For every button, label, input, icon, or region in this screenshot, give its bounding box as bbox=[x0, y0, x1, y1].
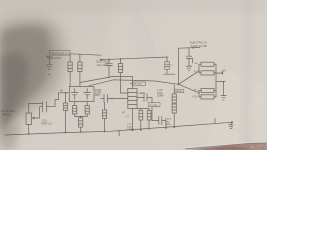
capacitor C13 bbox=[201, 71, 214, 75]
resistor R4 bbox=[73, 106, 77, 115]
resistor R3 bbox=[78, 62, 82, 72]
ground bus bbox=[5, 122, 232, 135]
capacitor C2 plates bbox=[42, 102, 44, 113]
capacitor C4 inside bbox=[71, 91, 78, 93]
paper edge shadow line bbox=[185, 143, 267, 149]
center fold soft bbox=[128, 0, 160, 90]
right fold shading bbox=[242, 0, 252, 150]
rail A bbox=[70, 54, 101, 55]
wire diagonal 2 bbox=[89, 80, 179, 86]
resistor R7 bbox=[120, 59, 122, 64]
raised corner light bottom right bbox=[205, 70, 267, 148]
ground G3 bbox=[221, 95, 226, 97]
wire pot bottom bbox=[28, 125, 30, 134]
wiper arrow bbox=[32, 117, 35, 120]
wire diagonal 1 bbox=[80, 76, 132, 88]
rail B bbox=[102, 57, 169, 60]
stub below bus bbox=[118, 130, 120, 132]
node fan-upper bbox=[198, 70, 199, 71]
wire pot top bbox=[29, 104, 43, 114]
node C6-wire bbox=[108, 77, 109, 78]
wire R4 R5 join bbox=[75, 114, 88, 117]
capacitor C7 bbox=[101, 98, 105, 100]
node R9-bus bbox=[140, 129, 142, 131]
wire op-amp out bbox=[220, 81, 225, 83]
node U1-bus bbox=[132, 130, 134, 132]
wire C3 to bus bbox=[65, 111, 67, 133]
module box X1 bbox=[69, 87, 94, 102]
node C9-bus bbox=[165, 127, 167, 129]
corner crease top-left bbox=[0, 0, 27, 16]
jumper label JP2 bbox=[149, 103, 161, 107]
wire ladder right rail bbox=[215, 64, 217, 97]
wire U1 bottom rail bbox=[137, 108, 149, 110]
wire JP2 down bbox=[151, 107, 153, 120]
capacitor C12 bbox=[201, 62, 214, 66]
electrolytic C3 bbox=[65, 93, 67, 103]
+5V arrow A bbox=[192, 58, 194, 63]
table surface bottom right bbox=[184, 143, 267, 150]
node pot-bus bbox=[28, 133, 30, 135]
capacitor C8 bbox=[137, 97, 144, 99]
wire to R11 bbox=[173, 85, 175, 94]
node rail-C6 bbox=[108, 59, 110, 61]
+5V arrow B bbox=[216, 72, 222, 74]
resistor R12 bbox=[172, 104, 176, 113]
node R12-bus bbox=[173, 126, 175, 128]
node join bbox=[80, 116, 82, 118]
ground G1 bbox=[48, 58, 50, 65]
node V+ bbox=[192, 47, 194, 49]
corner crease bbox=[231, 126, 252, 143]
wire U1 bottom to bus bbox=[131, 109, 133, 131]
node A bbox=[65, 92, 67, 94]
head shadow core bbox=[0, 26, 51, 137]
potentiometer R1 bbox=[26, 113, 32, 125]
paper edge highlight bbox=[185, 142, 267, 148]
node out bbox=[223, 81, 225, 83]
wire ladder left upper bbox=[198, 64, 200, 73]
head shadow darkest bbox=[0, 52, 30, 128]
wire X1 pin1 down bbox=[74, 102, 76, 106]
wire X1 pin2 down bbox=[86, 102, 88, 106]
paper crease center bbox=[132, 0, 157, 58]
wire V+ top bbox=[179, 48, 201, 85]
head shadow outer bbox=[0, 18, 65, 145]
wire C10 stub bbox=[164, 73, 176, 75]
wire fan upper bbox=[179, 71, 200, 84]
note box TANT bbox=[50, 51, 71, 56]
arrow rail B bbox=[99, 59, 102, 62]
node fan-lower bbox=[198, 92, 199, 93]
light sheen upper right bbox=[110, 0, 267, 150]
resistor R9 bbox=[140, 109, 142, 111]
ground G4 bbox=[229, 124, 234, 126]
paper crease center light bbox=[134, 0, 159, 56]
bus tick bbox=[214, 119, 216, 124]
wire to ground G3 bbox=[223, 82, 225, 96]
wire fan lower bbox=[179, 84, 200, 93]
wire R3 down bbox=[79, 72, 81, 87]
resistor R2 bbox=[68, 62, 72, 72]
capacitor C5 inside bbox=[84, 91, 91, 93]
top vignette bbox=[0, 0, 267, 10]
wire R2 down bbox=[69, 72, 71, 87]
wire riser staircase bbox=[47, 93, 66, 107]
resistor R8 bbox=[104, 103, 106, 111]
resistor R5 bbox=[85, 106, 89, 115]
wire R6 to bus bbox=[80, 127, 82, 132]
electrolytic C10 bbox=[166, 57, 168, 62]
capacitor C6 bbox=[108, 59, 110, 63]
node C7-R8 bbox=[111, 98, 113, 100]
wire ladder left lower bbox=[198, 91, 200, 97]
node R8-bus bbox=[104, 131, 106, 133]
wiper wire bbox=[34, 107, 43, 118]
wire R7 to U1 bbox=[121, 73, 128, 94]
wire rail to R2 bbox=[69, 54, 71, 62]
ground G2 bbox=[186, 65, 192, 67]
node rail-R7 bbox=[120, 58, 122, 60]
arrow note bbox=[46, 55, 49, 57]
IC U1 bbox=[128, 89, 137, 109]
label box LM386 bbox=[174, 90, 184, 93]
capacitor C9 bbox=[152, 120, 159, 122]
resistor R10 bbox=[148, 109, 150, 111]
wire node to box bbox=[66, 92, 70, 94]
node C3-bus bbox=[65, 132, 67, 134]
corner shade bottom-left bbox=[0, 124, 22, 150]
wire rail to R3 bbox=[79, 54, 81, 62]
node R6-bus bbox=[80, 131, 82, 133]
paper background bbox=[0, 0, 267, 150]
node fan bbox=[178, 83, 180, 85]
warm tint bbox=[0, 0, 267, 150]
wire rail to ground stem bbox=[216, 81, 224, 83]
wire R8 to bus bbox=[104, 119, 106, 132]
jumper label JP1 bbox=[133, 82, 146, 85]
resistor R6 bbox=[80, 117, 82, 118]
capacitor C14 bbox=[201, 88, 214, 92]
resistor R11 bbox=[172, 94, 176, 103]
capacitor C15 bbox=[201, 95, 214, 99]
capacitor C11 bbox=[188, 48, 190, 56]
bus end node bbox=[231, 121, 233, 123]
